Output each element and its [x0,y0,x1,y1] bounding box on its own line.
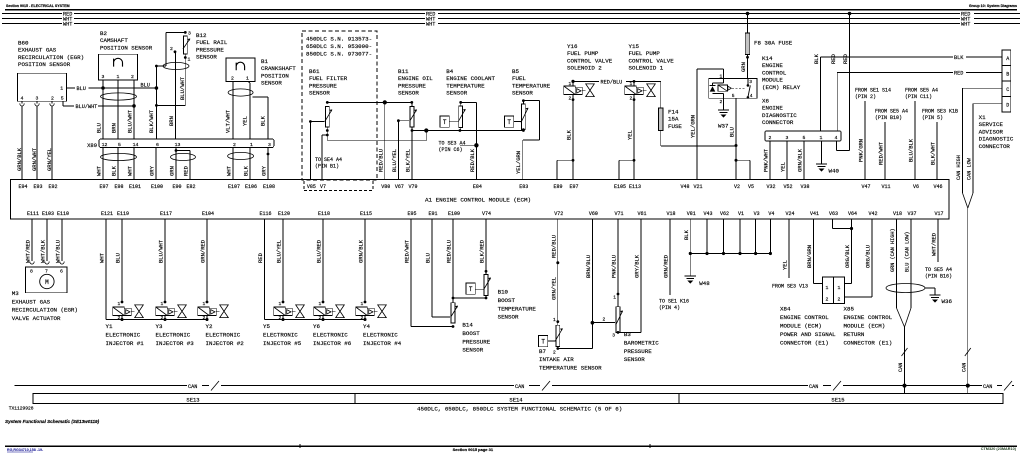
svg-text:RG,RG34710,158 -19-: RG,RG34710,158 -19- [7,448,44,452]
svg-text:CTM320 (23MAR10): CTM320 (23MAR10) [981,447,1017,451]
